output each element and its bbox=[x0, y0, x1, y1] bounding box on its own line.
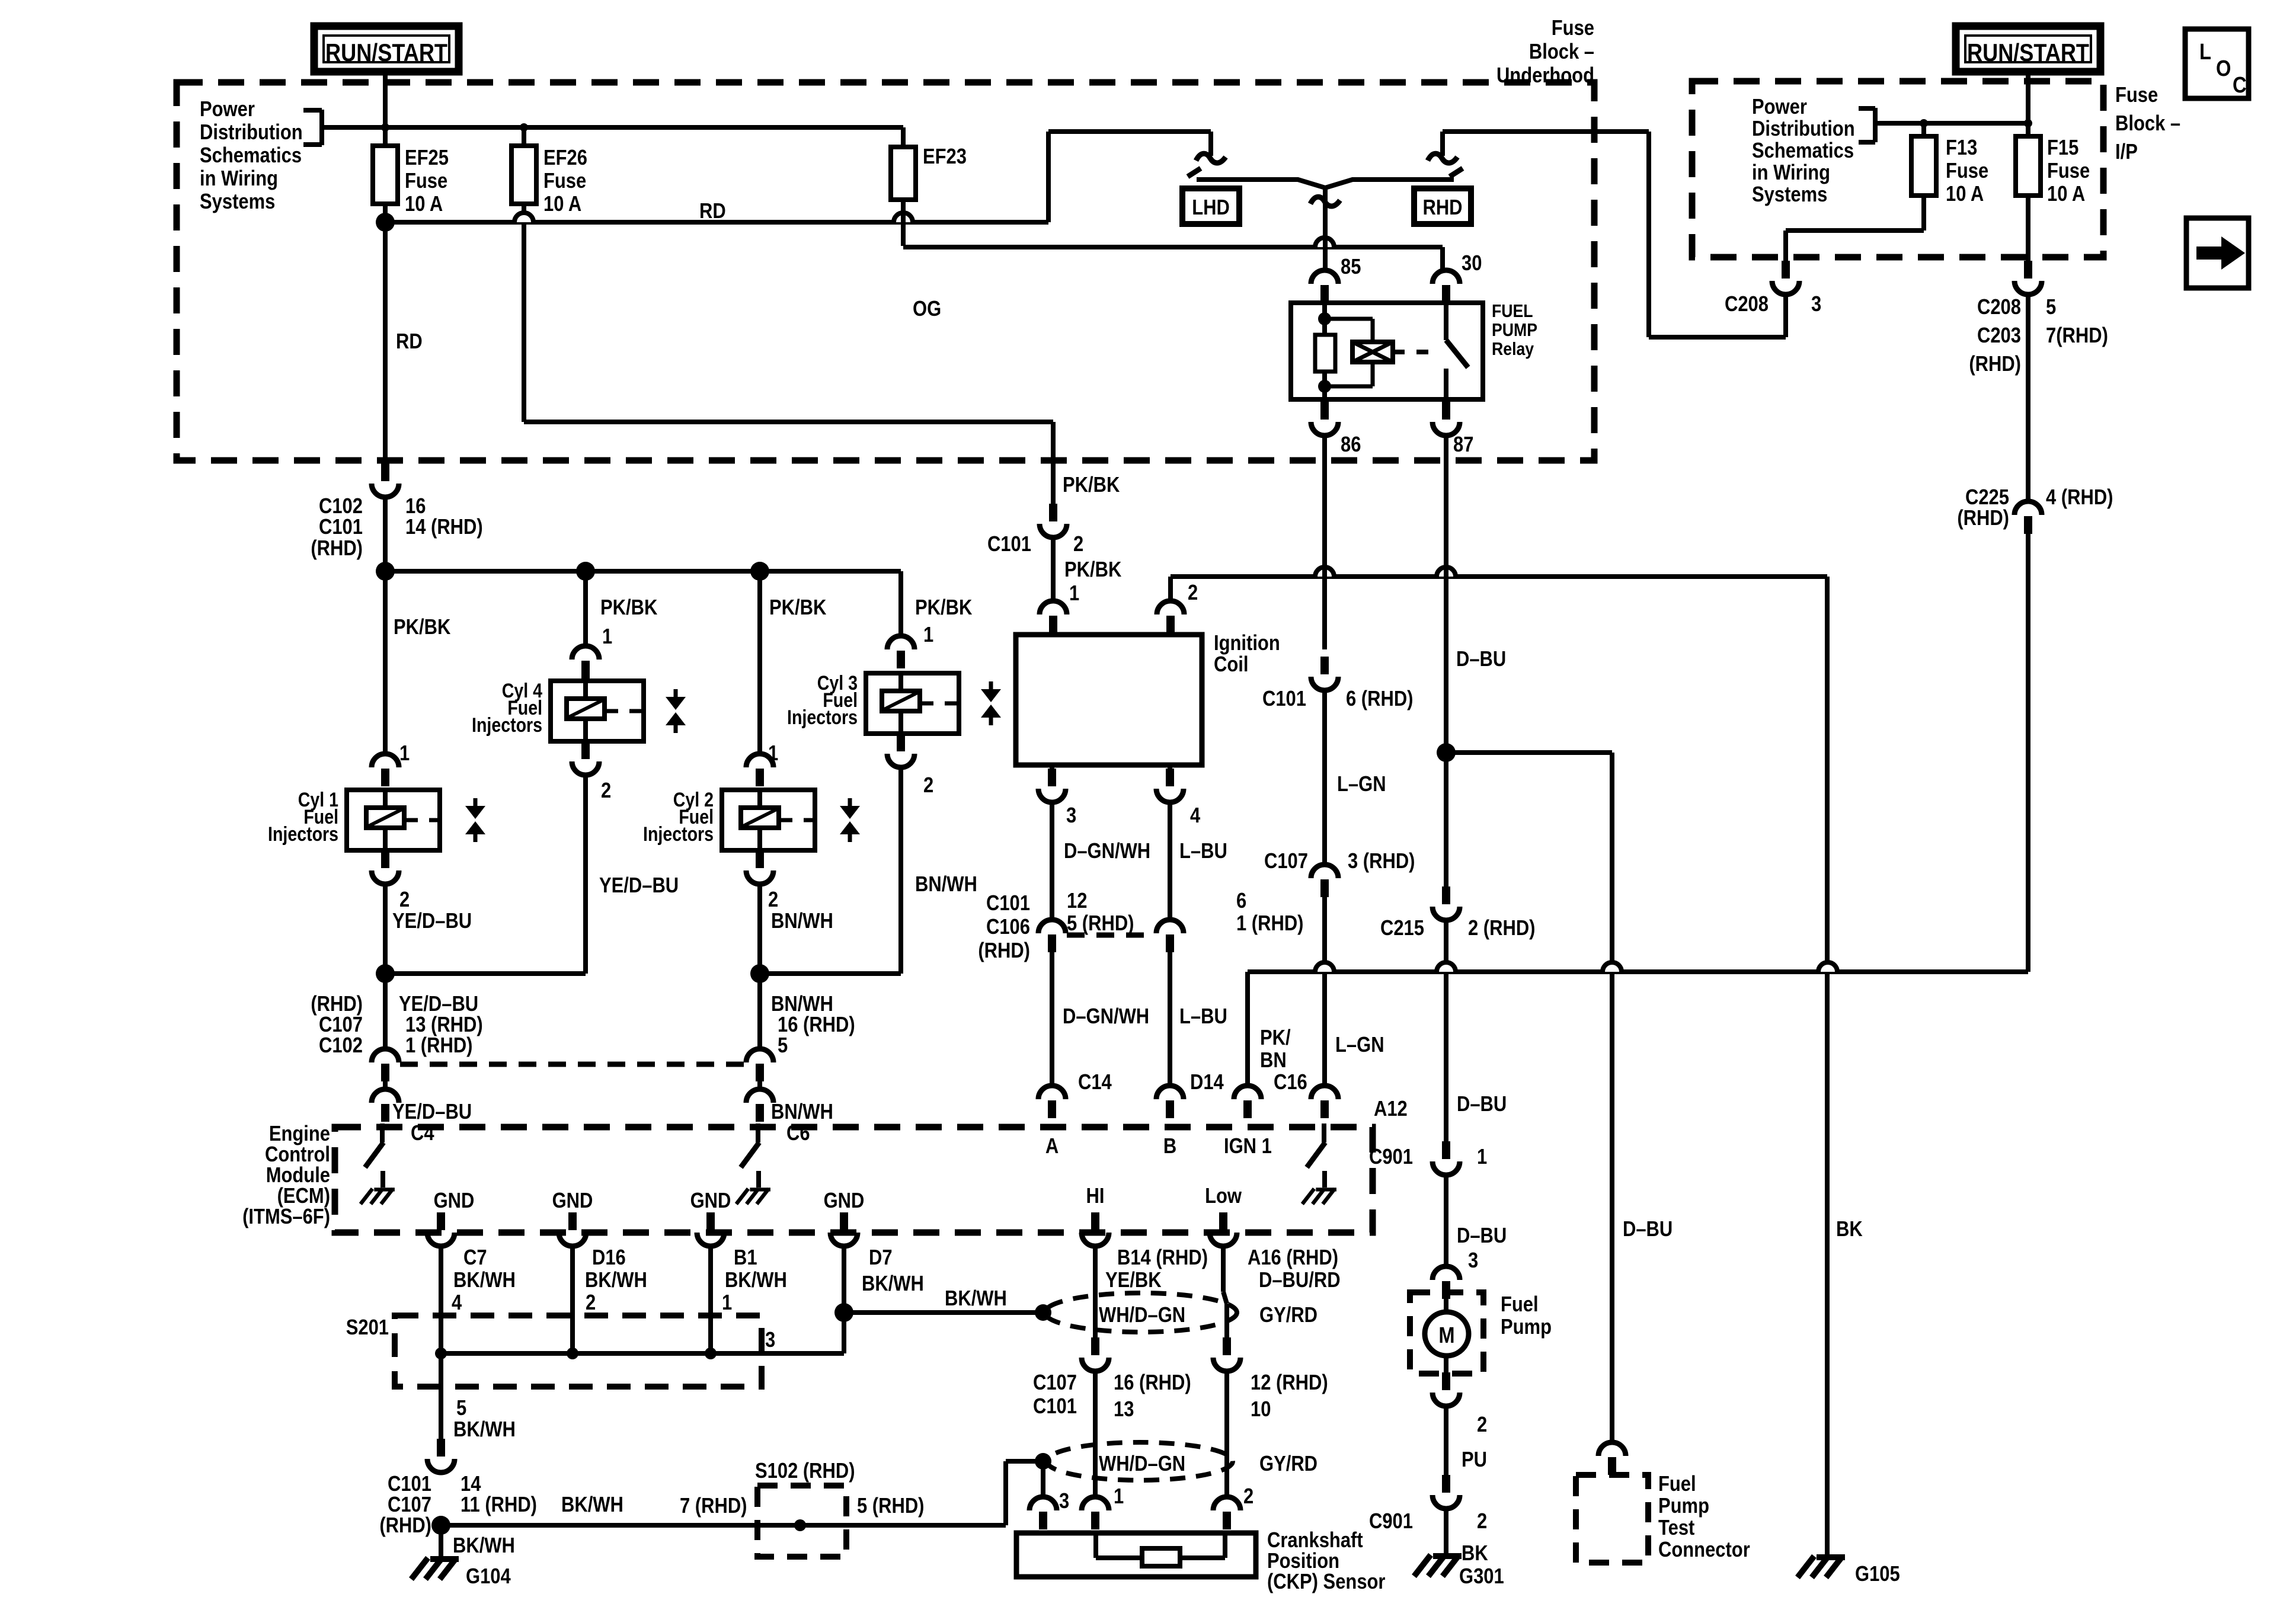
fuse EF26 wire bbox=[522, 127, 526, 422]
valve symbol Cyl 1 bbox=[474, 798, 478, 806]
svg-text:C107: C107 bbox=[388, 1493, 431, 1517]
connector C107/C101 12(RHD)/10 bbox=[1223, 1337, 1231, 1355]
svg-text:C101: C101 bbox=[1033, 1395, 1077, 1419]
wire BK/WH to S102 bbox=[441, 1523, 1006, 1528]
svg-text:G105: G105 bbox=[1855, 1563, 1900, 1586]
svg-text:7 (RHD): 7 (RHD) bbox=[680, 1494, 747, 1518]
junction dot S102 bbox=[794, 1519, 806, 1531]
svg-text:RHD: RHD bbox=[1422, 196, 1462, 220]
connector coil pin 3 bbox=[1048, 769, 1056, 786]
bracket from note to wire (right) bbox=[1873, 108, 1878, 142]
wire PK/BK to Cyl 1 injector bbox=[383, 571, 388, 754]
svg-text:1: 1 bbox=[1069, 582, 1079, 606]
connector C208 pin 5 (F15 out) bbox=[2026, 196, 2030, 270]
svg-text:BN/WH: BN/WH bbox=[915, 873, 977, 897]
svg-text:C101: C101 bbox=[1262, 687, 1306, 711]
svg-text:BK/WH: BK/WH bbox=[585, 1269, 647, 1292]
junction dot PK/BK bus at Cyl1 bbox=[376, 562, 395, 581]
svg-text:L–BU: L–BU bbox=[1179, 840, 1227, 863]
svg-text:D7: D7 bbox=[869, 1246, 893, 1270]
junction dot YE/D-BU bbox=[376, 964, 395, 983]
svg-text:BN/WH: BN/WH bbox=[771, 1100, 833, 1124]
svg-text:GND: GND bbox=[552, 1189, 593, 1213]
relay solenoid branch bbox=[1325, 317, 1373, 321]
wire relay 86 to C101-6 bbox=[1322, 436, 1327, 649]
LOC legend box bbox=[2185, 29, 2249, 98]
junction dot G104 net bbox=[431, 1516, 450, 1535]
wire D-GN/WH to ECM A bbox=[1050, 952, 1054, 1086]
svg-text:86: 86 bbox=[1341, 433, 1361, 457]
svg-text:L: L bbox=[2199, 39, 2211, 65]
wire PK/BK to Cyl 4 injector bbox=[583, 627, 588, 646]
wire YE/D-BU to ECM C4 bbox=[383, 1081, 388, 1089]
svg-text:Schematics: Schematics bbox=[1752, 139, 1854, 163]
connector cup relay pin 85 bbox=[1311, 270, 1338, 284]
svg-text:11 (RHD): 11 (RHD) bbox=[461, 1493, 537, 1517]
svg-text:2: 2 bbox=[1477, 1413, 1487, 1437]
wire: RUN/START left drop to RD bus bbox=[383, 72, 388, 127]
connector ECM pin C16 bbox=[1234, 1086, 1261, 1099]
svg-text:Fuse: Fuse bbox=[405, 169, 447, 193]
junction dot BN/WH bbox=[750, 964, 769, 983]
hop over 87 wire bbox=[1437, 567, 1456, 577]
svg-text:RUN/START: RUN/START bbox=[1967, 40, 2089, 67]
junction dot EF25 output / RD net bbox=[376, 213, 395, 232]
svg-text:1: 1 bbox=[722, 1291, 732, 1315]
injector Cyl 2 Fuel Injectors box bbox=[722, 790, 815, 850]
wire D-BU to C901 bbox=[1444, 920, 1448, 1141]
svg-text:10 A: 10 A bbox=[405, 193, 443, 216]
connector fuel pump test connector bbox=[1598, 1442, 1626, 1456]
svg-text:Crankshaft: Crankshaft bbox=[1267, 1529, 1363, 1553]
node: RD bus (top horizontal) bbox=[322, 125, 903, 130]
power label box RUN/START (left) bbox=[314, 26, 459, 72]
wire D-BU to fuel pump test connector bbox=[1610, 753, 1614, 1442]
svg-text:Distribution: Distribution bbox=[1752, 117, 1855, 141]
svg-text:Engine: Engine bbox=[269, 1122, 330, 1146]
svg-text:BK/WH: BK/WH bbox=[561, 1493, 623, 1517]
svg-text:GND: GND bbox=[434, 1189, 475, 1213]
arrow legend box bbox=[2186, 218, 2249, 288]
S201 ground bus bbox=[441, 1351, 844, 1356]
injector Cyl 3 branch bbox=[898, 571, 903, 636]
svg-text:14 (RHD): 14 (RHD) bbox=[405, 516, 483, 539]
ECM switch at C4 to ground bbox=[380, 1124, 385, 1142]
dashed box: Fuse Block - I/P bbox=[1692, 81, 2103, 257]
power label box RUN/START (right) bbox=[1956, 26, 2100, 72]
svg-text:(CKP) Sensor: (CKP) Sensor bbox=[1267, 1570, 1385, 1594]
svg-text:GY/RD: GY/RD bbox=[1259, 1304, 1318, 1327]
connector ECM pin C4 bbox=[372, 1089, 399, 1103]
svg-text:1 (RHD): 1 (RHD) bbox=[405, 1034, 472, 1058]
svg-text:D–BU: D–BU bbox=[1457, 1093, 1507, 1116]
wire YE/BK HI to CKP bbox=[1093, 1246, 1098, 1337]
svg-text:C101: C101 bbox=[986, 892, 1030, 916]
valve symbol Cyl 2 bbox=[848, 798, 852, 806]
wire to F13/F15 bbox=[1875, 121, 2028, 126]
svg-text:1: 1 bbox=[399, 742, 410, 766]
svg-text:Control: Control bbox=[265, 1143, 330, 1167]
svg-text:PU: PU bbox=[1462, 1448, 1487, 1472]
connector Cyl 2 pin 1 bbox=[746, 754, 773, 767]
svg-text:3: 3 bbox=[1059, 1490, 1069, 1513]
injector Cyl 3 Fuel Injectors box bbox=[866, 673, 959, 734]
svg-text:LHD: LHD bbox=[1192, 196, 1230, 220]
svg-text:D–BU: D–BU bbox=[1456, 648, 1506, 671]
svg-text:M: M bbox=[1438, 1323, 1454, 1348]
svg-text:D–BU: D–BU bbox=[1457, 1224, 1507, 1248]
connector C107 3(RHD) bbox=[1311, 865, 1338, 878]
svg-text:13 (RHD): 13 (RHD) bbox=[405, 1013, 483, 1037]
svg-text:PK/BK: PK/BK bbox=[1063, 473, 1120, 497]
svg-text:5 (RHD): 5 (RHD) bbox=[1067, 912, 1134, 936]
svg-text:PK/BK: PK/BK bbox=[600, 596, 657, 620]
connector Cyl 4 pin 1 bbox=[572, 646, 599, 660]
wire EF23 feed bbox=[901, 127, 906, 246]
svg-text:D–GN/WH: D–GN/WH bbox=[1063, 1005, 1149, 1029]
wire L-GN bbox=[1322, 690, 1327, 865]
fuse F15 wire bbox=[2026, 136, 2030, 261]
svg-text:F15: F15 bbox=[2047, 136, 2078, 160]
wire RD horizontal bbox=[385, 220, 1048, 225]
svg-text:Injectors: Injectors bbox=[268, 823, 338, 846]
svg-text:YE/D–BU: YE/D–BU bbox=[599, 874, 679, 898]
svg-text:WH/D–GN: WH/D–GN bbox=[1099, 1304, 1185, 1327]
svg-text:5 (RHD): 5 (RHD) bbox=[857, 1494, 924, 1518]
svg-text:2: 2 bbox=[399, 888, 410, 912]
svg-text:PK/BK: PK/BK bbox=[915, 596, 972, 620]
wire RUN/START right drop bbox=[2026, 72, 2030, 136]
wire PK/BK to coil pin 1 bbox=[1051, 537, 1056, 601]
svg-text:2 (RHD): 2 (RHD) bbox=[1468, 917, 1535, 940]
junction dot Cyl4 bbox=[576, 562, 595, 581]
svg-text:87: 87 bbox=[1453, 433, 1473, 457]
connector Cyl 4 pin 2 bbox=[581, 741, 590, 759]
svg-text:7(RHD): 7(RHD) bbox=[2046, 324, 2108, 348]
connector C901 pin 2 bbox=[1442, 1475, 1450, 1493]
wire IGN1 feed horizontal bbox=[1248, 969, 2028, 974]
connector ignition coil pin 2 bbox=[1157, 601, 1184, 614]
svg-text:YE/D–BU: YE/D–BU bbox=[392, 910, 472, 933]
svg-text:PUMP: PUMP bbox=[1492, 320, 1537, 340]
fuse F13 bbox=[1911, 136, 1936, 196]
junction dot Cyl2 bbox=[750, 562, 769, 581]
svg-text:1 (RHD): 1 (RHD) bbox=[1236, 912, 1303, 936]
wire BN/WH from Cyl3 bbox=[898, 768, 903, 974]
connector C101/C106 12/5(RHD) bbox=[1038, 920, 1066, 933]
wire RD riser to top-right run bbox=[1046, 132, 1051, 222]
wire S102 to crank sensor pair bbox=[1003, 1461, 1008, 1525]
svg-text:Block –: Block – bbox=[2115, 112, 2180, 136]
svg-text:Coil: Coil bbox=[1214, 653, 1248, 677]
dashed connector jumper C107/C102 bbox=[400, 1062, 744, 1067]
svg-text:3 (RHD): 3 (RHD) bbox=[1348, 850, 1415, 873]
wire D-BU branch to test connector column bbox=[1446, 750, 1612, 755]
wire PK/BK from EF26 to ignition coil bbox=[524, 420, 1053, 424]
svg-text:Power: Power bbox=[200, 98, 255, 121]
svg-text:30: 30 bbox=[1462, 252, 1482, 276]
svg-text:Underhood: Underhood bbox=[1496, 64, 1594, 88]
svg-text:Position: Position bbox=[1267, 1550, 1339, 1573]
svg-text:13: 13 bbox=[1114, 1398, 1134, 1422]
svg-text:Power: Power bbox=[1752, 95, 1807, 119]
svg-text:Connector: Connector bbox=[1658, 1538, 1750, 1562]
wire C7 to S201 bbox=[439, 1246, 443, 1353]
wire coil pin 2 riser bbox=[1168, 577, 1173, 601]
svg-text:C102: C102 bbox=[319, 1034, 363, 1058]
svg-text:D–BU: D–BU bbox=[1623, 1218, 1673, 1241]
twisted pair shield ellipse (upper) bbox=[1045, 1293, 1237, 1332]
wire L-BU to ECM B bbox=[1168, 952, 1172, 1086]
junction dot D7 BK/WH branch bbox=[834, 1303, 853, 1322]
svg-text:Relay: Relay bbox=[1492, 339, 1534, 359]
svg-text:Systems: Systems bbox=[200, 190, 275, 214]
svg-text:C101: C101 bbox=[987, 533, 1031, 556]
svg-text:L–GN: L–GN bbox=[1337, 773, 1386, 796]
connector fuel pump pin 3 bbox=[1432, 1266, 1460, 1280]
connector C101 pin 2 bbox=[1049, 504, 1057, 521]
connector Cyl 1 pin 1 bbox=[372, 754, 399, 767]
wire BN/WH to ECM C6 bbox=[757, 1081, 762, 1089]
connector fuel pump pin 2 bbox=[1442, 1372, 1450, 1390]
svg-text:G104: G104 bbox=[466, 1565, 511, 1589]
connector C107/C102 (BN/WH) bbox=[746, 1049, 773, 1062]
hop over L-GN wire bbox=[1315, 962, 1334, 972]
svg-text:14: 14 bbox=[461, 1473, 481, 1496]
svg-text:3: 3 bbox=[765, 1329, 775, 1352]
svg-text:Systems: Systems bbox=[1752, 183, 1827, 207]
svg-text:C16: C16 bbox=[1274, 1071, 1307, 1094]
svg-text:GND: GND bbox=[824, 1189, 865, 1213]
wire L-GN to ECM A12 bbox=[1322, 897, 1327, 1086]
connector C107/C101 16(RHD)/13 bbox=[1091, 1337, 1099, 1355]
connector ECM pin B1 bbox=[706, 1212, 715, 1230]
wire BK to G301 bbox=[1444, 1509, 1448, 1556]
svg-text:85: 85 bbox=[1341, 255, 1361, 279]
ECM switch at C6 to ground bbox=[756, 1124, 760, 1142]
svg-text:C203: C203 bbox=[1977, 324, 2021, 348]
svg-text:5: 5 bbox=[778, 1034, 788, 1058]
svg-text:(RHD): (RHD) bbox=[311, 993, 363, 1016]
svg-text:(ITMS–6F): (ITMS–6F) bbox=[242, 1205, 330, 1229]
relay solenoid coil symbol bbox=[1352, 342, 1393, 362]
connector C102/C101 16/14(RHD) bbox=[383, 222, 388, 463]
svg-text:12: 12 bbox=[1067, 889, 1087, 913]
svg-text:16 (RHD): 16 (RHD) bbox=[778, 1013, 855, 1037]
injector Cyl 4 branch bbox=[583, 571, 588, 646]
valve symbol Cyl 3 bbox=[989, 681, 993, 690]
hop over EF26 wire bbox=[514, 213, 533, 222]
connector C208 pin 3 bbox=[1782, 261, 1790, 279]
ground G104 bbox=[411, 1558, 459, 1579]
svg-text:BK/WH: BK/WH bbox=[725, 1269, 787, 1292]
wire D-BU to fuel pump bbox=[1444, 1175, 1448, 1266]
svg-text:(ECM): (ECM) bbox=[277, 1185, 330, 1208]
twisted pair shield ellipse (lower) bbox=[1047, 1442, 1233, 1480]
ground G105 bbox=[1798, 1556, 1845, 1577]
LHD branch drop bbox=[1208, 132, 1213, 156]
junction dots S201 bbox=[435, 1347, 447, 1359]
ignition coil box bbox=[1016, 635, 1202, 765]
svg-text:BK/WH: BK/WH bbox=[453, 1269, 516, 1292]
svg-text:C901: C901 bbox=[1369, 1510, 1413, 1534]
svg-text:C14: C14 bbox=[1078, 1071, 1112, 1094]
svg-text:L–GN: L–GN bbox=[1335, 1033, 1384, 1057]
connector ECM pin C7 bbox=[437, 1212, 445, 1230]
svg-text:6: 6 bbox=[1236, 889, 1246, 913]
wire PK/BK injector bus bbox=[385, 569, 901, 574]
svg-text:Fuel: Fuel bbox=[1658, 1473, 1696, 1496]
hop over 86 wire bbox=[1315, 567, 1334, 577]
wire PK/BK down to injector bus bbox=[383, 497, 388, 571]
svg-text:(RHD): (RHD) bbox=[1957, 507, 2009, 530]
wire relay 86 out bbox=[1322, 399, 1327, 402]
svg-text:PK/BK: PK/BK bbox=[394, 616, 450, 639]
svg-text:BK/WH: BK/WH bbox=[453, 1418, 516, 1442]
wire coil pin 2 net (BK to G105) bbox=[1171, 574, 1827, 579]
connector Cyl 2 pin 2 bbox=[756, 850, 764, 868]
wire BK to G105 bbox=[1825, 577, 1830, 1556]
svg-text:C107: C107 bbox=[1033, 1371, 1077, 1395]
hop over BK wire bbox=[1818, 962, 1837, 972]
svg-text:C102: C102 bbox=[319, 495, 363, 518]
svg-text:5: 5 bbox=[456, 1397, 466, 1420]
connector ECM pin D16 bbox=[568, 1212, 577, 1230]
svg-text:Fuse: Fuse bbox=[2115, 84, 2158, 107]
svg-text:A16 (RHD): A16 (RHD) bbox=[1248, 1246, 1338, 1270]
connector C101/C107 14/11(RHD) bbox=[437, 1439, 445, 1457]
svg-text:A: A bbox=[1045, 1135, 1059, 1158]
injector Cyl 2 branch bbox=[757, 571, 762, 754]
bracket from note to wire bbox=[319, 110, 324, 145]
connector Cyl 3 pin 1 bbox=[887, 636, 914, 649]
svg-text:2: 2 bbox=[1073, 533, 1083, 556]
junction dot F15 top bbox=[2024, 119, 2032, 127]
RHD tag box bbox=[1414, 188, 1471, 224]
svg-text:Test: Test bbox=[1658, 1516, 1694, 1540]
svg-text:Low: Low bbox=[1205, 1185, 1242, 1208]
relay: FUEL PUMP Relay box bbox=[1291, 303, 1483, 399]
svg-text:C225: C225 bbox=[1965, 486, 2009, 510]
svg-text:Fuse: Fuse bbox=[543, 169, 586, 193]
svg-text:OG: OG bbox=[913, 297, 941, 321]
S102 splice dashed box bbox=[757, 1486, 846, 1557]
svg-text:Fuel: Fuel bbox=[1501, 1293, 1539, 1317]
svg-text:Injectors: Injectors bbox=[472, 714, 542, 737]
fuse F15 bbox=[2016, 136, 2041, 196]
relay switch bbox=[1444, 303, 1448, 340]
connector ECM pin HI (B14) bbox=[1091, 1212, 1099, 1230]
svg-text:2: 2 bbox=[1477, 1510, 1487, 1534]
svg-text:10 A: 10 A bbox=[1946, 183, 1984, 206]
svg-text:BN/WH: BN/WH bbox=[771, 910, 833, 933]
wire coil pin 4 out bbox=[1168, 765, 1172, 769]
wire GY/RD Low to CKP bbox=[1221, 1246, 1226, 1292]
svg-text:Module: Module bbox=[266, 1164, 330, 1188]
wire D-GN/WH bbox=[1050, 802, 1054, 920]
svg-text:(RHD): (RHD) bbox=[379, 1514, 431, 1538]
LHD tag box bbox=[1182, 188, 1239, 224]
svg-text:2: 2 bbox=[1188, 581, 1198, 605]
svg-text:GND: GND bbox=[690, 1189, 731, 1213]
svg-text:1: 1 bbox=[923, 623, 933, 647]
RHD branch drop bbox=[1440, 132, 1445, 156]
fuse F13 wire bbox=[1921, 123, 1926, 231]
svg-text:C: C bbox=[2233, 72, 2247, 98]
valve symbol Cyl 4 bbox=[674, 689, 678, 697]
connector C101/C106 6/1(RHD) bbox=[1156, 920, 1184, 933]
svg-text:C106: C106 bbox=[986, 916, 1030, 939]
svg-text:RD: RD bbox=[396, 330, 423, 354]
svg-text:(RHD): (RHD) bbox=[311, 537, 363, 561]
svg-text:10: 10 bbox=[1251, 1398, 1271, 1422]
relay coil feed wire bbox=[1322, 303, 1327, 335]
svg-text:I/P: I/P bbox=[2115, 140, 2138, 164]
connector ECM pin B (D14) bbox=[1156, 1086, 1184, 1099]
wire YE/D-BU from Cyl4 bbox=[583, 775, 588, 974]
junction dot RUN/START-EF25 bbox=[381, 123, 389, 132]
junction dot D-BU branch bbox=[1437, 743, 1456, 762]
svg-text:GY/RD: GY/RD bbox=[1259, 1452, 1318, 1476]
svg-text:BK: BK bbox=[1836, 1218, 1863, 1241]
connector ECM pin D7 bbox=[840, 1212, 848, 1230]
connector ECM pin C6 bbox=[746, 1089, 773, 1103]
junction dot F13 top bbox=[1920, 119, 1928, 127]
svg-text:4: 4 bbox=[452, 1291, 462, 1315]
wire B1 to S201 bbox=[708, 1246, 713, 1353]
svg-text:4: 4 bbox=[1190, 804, 1201, 828]
relay pin 30 drop bbox=[1440, 247, 1445, 270]
relay resistor bbox=[1315, 335, 1335, 372]
svg-text:in Wiring: in Wiring bbox=[1752, 161, 1830, 185]
connector relay pin 87 bbox=[1442, 402, 1450, 420]
svg-text:FUEL: FUEL bbox=[1492, 301, 1533, 321]
svg-text:C208: C208 bbox=[1725, 293, 1769, 316]
junction dot twisted pair top bbox=[1035, 1304, 1051, 1321]
svg-text:Distribution: Distribution bbox=[200, 121, 303, 145]
wire C208-3 jog to RHD feed bbox=[1783, 293, 1788, 337]
fuse EF25 bbox=[373, 146, 398, 204]
svg-text:Fuse: Fuse bbox=[2047, 159, 2090, 183]
svg-text:Schematics: Schematics bbox=[200, 144, 302, 168]
fuel pump dashed box bbox=[1410, 1292, 1483, 1374]
hop over D-BU wire bbox=[1437, 962, 1456, 972]
relay actuation dashed link bbox=[1393, 350, 1439, 354]
svg-text:YE/BK: YE/BK bbox=[1105, 1269, 1162, 1292]
connector C901 pin 1 bbox=[1442, 1141, 1450, 1159]
wire BN/WH Cyl2 down bbox=[757, 884, 762, 974]
svg-text:B14 (RHD): B14 (RHD) bbox=[1117, 1246, 1208, 1270]
svg-text:16 (RHD): 16 (RHD) bbox=[1114, 1371, 1191, 1395]
svg-text:2: 2 bbox=[586, 1291, 596, 1315]
RHD option break squiggle bbox=[1428, 153, 1457, 163]
wire F15/IGN1 net down to corner bbox=[2026, 534, 2030, 972]
wire merge to relay 85 bbox=[1310, 197, 1340, 206]
svg-text:WH/D–GN: WH/D–GN bbox=[1099, 1452, 1185, 1476]
svg-text:1: 1 bbox=[602, 625, 612, 649]
svg-text:PK/BK: PK/BK bbox=[769, 596, 826, 620]
wire PK/BK to Cyl 2 injector bbox=[757, 735, 762, 754]
wire D7 down bbox=[842, 1246, 846, 1353]
svg-text:Ignition: Ignition bbox=[1214, 632, 1280, 655]
svg-text:C107: C107 bbox=[1264, 850, 1308, 873]
svg-text:B: B bbox=[1163, 1135, 1176, 1158]
connector cup relay pin 30 bbox=[1432, 270, 1460, 284]
wire relay 87 down (D-BU) bbox=[1444, 436, 1448, 886]
svg-text:16: 16 bbox=[405, 495, 426, 518]
merge bracket LHD/RHD bbox=[1197, 180, 1454, 188]
svg-text:2: 2 bbox=[601, 779, 611, 803]
